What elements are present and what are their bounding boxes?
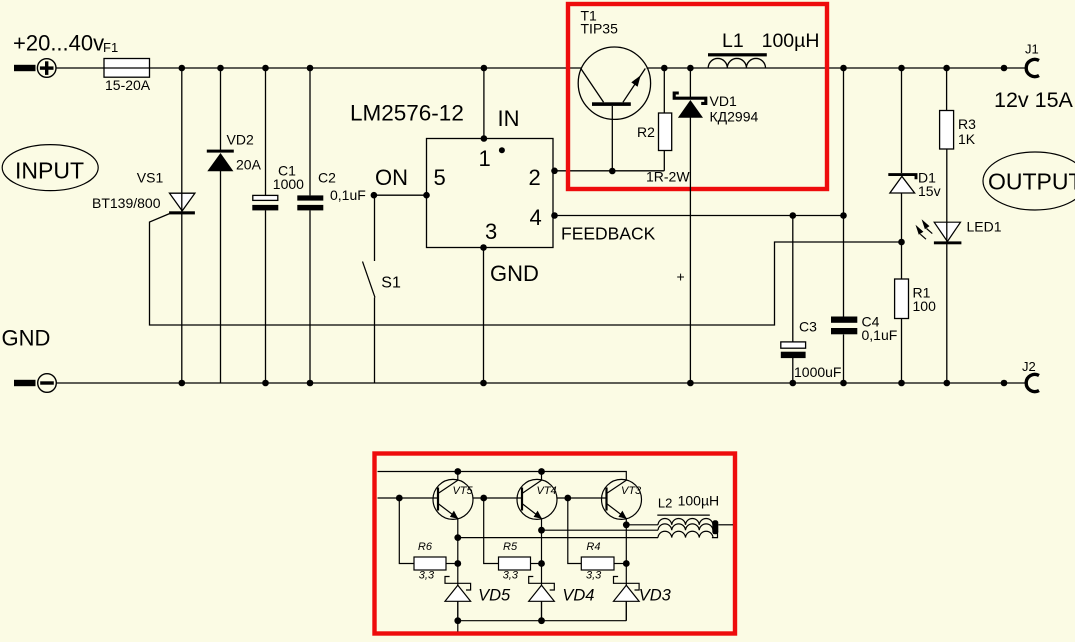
svg-text:R6: R6 — [418, 541, 433, 553]
svg-text:2: 2 — [529, 165, 541, 190]
svg-text:5: 5 — [434, 165, 446, 190]
svg-text:VT4: VT4 — [537, 485, 557, 497]
svg-text:INPUT: INPUT — [15, 158, 84, 184]
capacitor C1 — [252, 65, 304, 387]
svg-text:R4: R4 — [586, 541, 600, 553]
wire VT3 emitter column — [623, 519, 630, 621]
svg-text:20A: 20A — [236, 157, 262, 173]
svg-text:R5: R5 — [503, 541, 518, 553]
svg-text:L1: L1 — [722, 30, 744, 52]
wire winding tap 1 — [626, 524, 658, 526]
wire diode bus bottom line — [458, 620, 627, 622]
svg-text:VT3: VT3 — [621, 485, 642, 497]
wire L2 output stub — [718, 524, 733, 526]
wire winding tap 2 — [542, 529, 659, 531]
highlight box upper red frame — [568, 4, 827, 189]
svg-text:TIP35: TIP35 — [581, 21, 619, 37]
diode VD1 Schottky — [674, 65, 758, 387]
svg-text:0,1uF: 0,1uF — [862, 327, 898, 343]
connector J2 — [1001, 359, 1039, 392]
highlight box lower red frame — [375, 454, 736, 634]
svg-text:12v 15A: 12v 15A — [994, 88, 1074, 112]
transistor VT4 — [517, 479, 557, 519]
svg-text:1K: 1K — [958, 131, 976, 147]
switch S1 — [363, 195, 401, 383]
svg-text:VD2: VD2 — [227, 131, 254, 147]
svg-text:J2: J2 — [1022, 359, 1036, 374]
svg-text:LED1: LED1 — [967, 219, 1002, 235]
wire top +V rail left of T1 — [56, 67, 581, 69]
svg-text:C3: C3 — [799, 319, 817, 335]
svg-text:FEEDBACK: FEEDBACK — [561, 224, 656, 244]
wire IN pin to top rail — [481, 65, 488, 142]
svg-text:100µH: 100µH — [678, 493, 720, 509]
transistor T1 TIP35 — [578, 8, 650, 175]
resistor R5 — [484, 498, 542, 582]
svg-text:S1: S1 — [381, 275, 401, 292]
resistor R1 — [895, 242, 936, 386]
terminal + input — [14, 59, 56, 78]
diode VD3 — [614, 577, 672, 621]
svg-text:3,3: 3,3 — [419, 570, 435, 582]
svg-text:1000: 1000 — [273, 176, 304, 192]
svg-text:1000uF: 1000uF — [794, 364, 841, 380]
svg-text:F1: F1 — [103, 40, 118, 55]
svg-text:15v: 15v — [918, 183, 941, 199]
svg-text:R3: R3 — [958, 116, 976, 132]
svg-text:100: 100 — [913, 298, 937, 314]
wire ON pin — [371, 192, 430, 199]
svg-text:VD5: VD5 — [478, 587, 511, 605]
svg-text:+: + — [677, 269, 685, 285]
pin 1 — [479, 146, 505, 171]
wire VT5 emitter column — [454, 519, 461, 632]
node OUTPUT ellipse — [983, 152, 1075, 210]
svg-text:3,3: 3,3 — [503, 570, 519, 582]
wire top +V rail right of T1 — [647, 67, 1028, 69]
terminal GND input — [14, 374, 56, 393]
wire collector bus line — [378, 468, 627, 480]
svg-text:C2: C2 — [318, 169, 336, 185]
svg-text:4: 4 — [530, 205, 542, 230]
svg-text:0,1uF: 0,1uF — [330, 187, 366, 203]
svg-text:OUTPUT: OUTPUT — [988, 169, 1075, 195]
wire winding tap 3 — [458, 537, 658, 539]
resistor R2 — [637, 65, 672, 171]
diode VD5 — [445, 577, 511, 621]
svg-text:GND: GND — [490, 261, 539, 286]
capacitor C3 — [781, 216, 842, 387]
connector J1 — [1001, 42, 1039, 77]
wire VD2 column — [217, 65, 224, 383]
svg-text:VD4: VD4 — [562, 587, 594, 605]
LED LED1 — [916, 149, 1002, 386]
svg-text:VD3: VD3 — [639, 587, 672, 605]
svg-text:ON: ON — [375, 165, 408, 190]
wire pin2 to R2 bottom — [551, 168, 664, 175]
resistor R6 — [399, 498, 458, 582]
capacitor C4 — [831, 65, 897, 387]
wire VT4 emitter column — [538, 519, 545, 625]
svg-text:J1: J1 — [1025, 42, 1039, 57]
wire VS1 column — [181, 68, 183, 383]
junction top rail VS1 — [179, 65, 186, 72]
wire pin4 feedback line — [551, 212, 847, 219]
wire base bus line — [378, 495, 607, 502]
resistor R3 — [940, 65, 977, 149]
inductor L1 — [708, 30, 819, 68]
svg-text:LM2576-12: LM2576-12 — [350, 101, 464, 126]
svg-text:BT139/800: BT139/800 — [92, 195, 161, 211]
capacitor C2 — [297, 65, 366, 387]
svg-text:R2: R2 — [637, 124, 655, 140]
resistor R4 — [568, 498, 627, 582]
svg-text:1: 1 — [479, 146, 491, 171]
svg-text:VD1: VD1 — [710, 93, 737, 109]
node INPUT ellipse — [2, 145, 98, 191]
svg-text:100µH: 100µH — [762, 30, 820, 52]
svg-text:КД2994: КД2994 — [710, 109, 759, 125]
thyristor VS1 — [92, 170, 195, 215]
zener diode D1 — [888, 65, 940, 242]
junction bottom rail VS1 — [179, 380, 186, 387]
svg-text:3: 3 — [485, 219, 497, 244]
svg-text:VT5: VT5 — [453, 485, 474, 497]
wire GND pin3 to bottom rail — [480, 244, 487, 386]
diode VD2 — [207, 131, 262, 172]
svg-text:L2: L2 — [658, 496, 672, 511]
svg-text:15-20A: 15-20A — [105, 77, 151, 93]
transistor VT3 — [602, 479, 643, 519]
wire gate sense line VS1 to zener node — [150, 214, 905, 325]
fuse F1 — [103, 40, 151, 93]
svg-text:IN: IN — [498, 106, 520, 131]
svg-text:+20...40v: +20...40v — [13, 31, 104, 56]
svg-text:1R-2W: 1R-2W — [646, 169, 690, 185]
svg-text:3,3: 3,3 — [586, 570, 602, 582]
diode VD4 — [529, 577, 595, 621]
inductor L2 — [657, 493, 719, 538]
op-amp regulator U1 LM2576-12 box — [350, 101, 553, 248]
svg-text:GND: GND — [2, 326, 51, 351]
svg-text:VS1: VS1 — [137, 170, 164, 186]
wire bottom GND rail — [57, 382, 1028, 384]
transistor VT5 — [433, 479, 474, 519]
